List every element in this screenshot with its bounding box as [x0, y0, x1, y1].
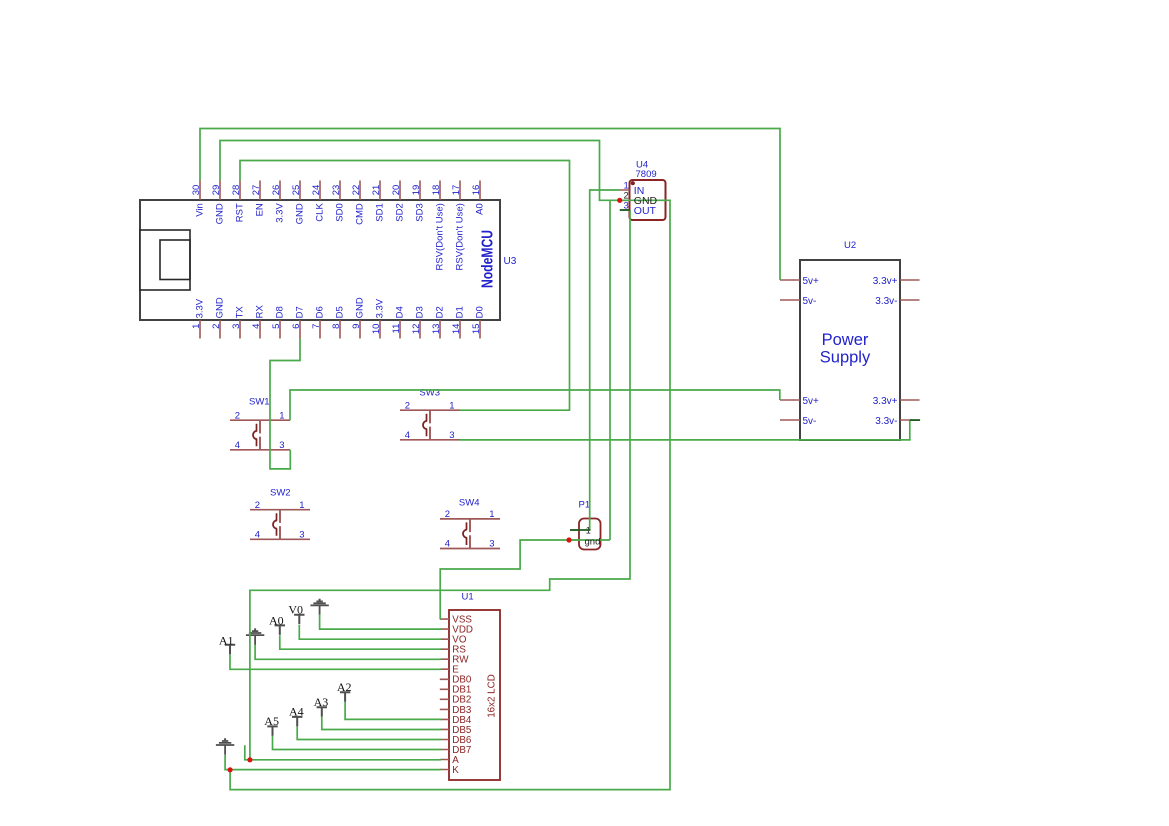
svg-text:D2: D2 — [435, 306, 446, 318]
svg-text:CMD: CMD — [355, 203, 366, 225]
svg-text:GND: GND — [295, 203, 306, 224]
svg-text:A4: A4 — [289, 705, 304, 719]
svg-text:NodeMCU: NodeMCU — [480, 230, 497, 288]
svg-text:3: 3 — [279, 440, 284, 451]
svg-text:16x2 LCD: 16x2 LCD — [486, 674, 497, 718]
svg-text:EN: EN — [255, 203, 266, 216]
svg-text:GND: GND — [215, 203, 226, 224]
svg-text:gnd: gnd — [585, 536, 601, 547]
svg-text:U3: U3 — [504, 256, 517, 267]
svg-text:A3: A3 — [314, 695, 329, 709]
svg-text:SD0: SD0 — [335, 203, 346, 221]
svg-text:4: 4 — [235, 440, 240, 451]
svg-text:4: 4 — [445, 539, 450, 550]
svg-text:RSV(Don't Use): RSV(Don't Use) — [435, 203, 446, 270]
svg-text:2: 2 — [405, 400, 410, 411]
svg-text:3: 3 — [299, 530, 304, 541]
svg-text:P1: P1 — [579, 500, 591, 511]
svg-text:D5: D5 — [335, 306, 346, 318]
svg-text:5v+: 5v+ — [803, 396, 820, 407]
svg-text:3: 3 — [449, 430, 454, 441]
svg-text:U1: U1 — [462, 592, 474, 603]
svg-text:A5: A5 — [264, 714, 279, 728]
svg-text:CLK: CLK — [315, 203, 326, 222]
svg-text:5v-: 5v- — [803, 296, 817, 307]
svg-text:D3: D3 — [415, 306, 426, 318]
svg-text:3.3V: 3.3V — [375, 298, 386, 318]
svg-text:2: 2 — [255, 500, 260, 511]
svg-text:D6: D6 — [315, 306, 326, 318]
svg-text:D7: D7 — [295, 306, 306, 318]
svg-text:SW2: SW2 — [270, 488, 291, 499]
svg-text:A0: A0 — [269, 614, 284, 628]
svg-text:4: 4 — [405, 430, 410, 441]
svg-text:3.3V: 3.3V — [195, 298, 206, 318]
svg-text:SW1: SW1 — [249, 396, 270, 407]
svg-text:A0: A0 — [475, 203, 486, 215]
svg-text:1: 1 — [489, 509, 494, 520]
svg-text:1: 1 — [449, 400, 454, 411]
svg-text:A1: A1 — [219, 633, 234, 647]
svg-text:7809: 7809 — [636, 169, 657, 180]
svg-text:Power: Power — [822, 331, 869, 349]
svg-text:5v-: 5v- — [803, 416, 817, 427]
svg-text:U2: U2 — [844, 240, 856, 251]
svg-text:SD2: SD2 — [395, 203, 406, 221]
svg-text:SD3: SD3 — [415, 203, 426, 221]
svg-text:D8: D8 — [275, 306, 286, 318]
svg-text:RST: RST — [235, 203, 246, 222]
svg-text:3.3V: 3.3V — [275, 203, 286, 223]
svg-text:5v+: 5v+ — [803, 276, 820, 287]
svg-text:3.3v+: 3.3v+ — [873, 396, 898, 407]
svg-text:SW4: SW4 — [459, 498, 480, 509]
svg-text:2: 2 — [235, 410, 240, 421]
svg-text:OUT: OUT — [634, 205, 657, 217]
svg-text:RX: RX — [255, 305, 266, 319]
svg-text:SD1: SD1 — [375, 203, 386, 221]
svg-text:1: 1 — [279, 410, 284, 421]
svg-text:TX: TX — [235, 306, 246, 319]
svg-text:1: 1 — [299, 500, 304, 511]
svg-text:3: 3 — [489, 539, 494, 550]
svg-text:Supply: Supply — [820, 349, 871, 367]
svg-text:D1: D1 — [455, 306, 466, 318]
svg-text:A2: A2 — [337, 680, 352, 694]
svg-text:2: 2 — [445, 509, 450, 520]
svg-text:3.3v-: 3.3v- — [875, 416, 897, 427]
svg-text:3.3v-: 3.3v- — [875, 296, 897, 307]
svg-text:D0: D0 — [475, 306, 486, 318]
svg-text:V0: V0 — [288, 602, 303, 616]
svg-text:Vin: Vin — [195, 203, 206, 217]
svg-text:4: 4 — [255, 530, 260, 541]
svg-text:K: K — [452, 765, 459, 776]
svg-text:RSV(Don't Use): RSV(Don't Use) — [455, 203, 466, 270]
svg-text:GND: GND — [215, 297, 226, 318]
svg-text:3.3v+: 3.3v+ — [873, 276, 898, 287]
svg-text:GND: GND — [355, 297, 366, 318]
svg-text:D4: D4 — [395, 306, 406, 318]
